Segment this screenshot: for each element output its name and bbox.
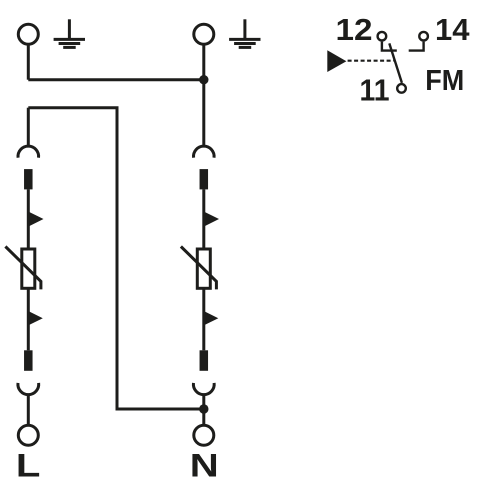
wire: L protective branch top xyxy=(27,108,30,147)
terminal circle top-right (PE side, N branch) xyxy=(194,24,214,44)
wire: bracket from L branch to N bottom junction xyxy=(28,108,204,409)
node: bus/N junction dot xyxy=(199,75,208,84)
arrow indicator lower, L branch xyxy=(29,311,43,325)
svg-text:12: 12 xyxy=(336,12,373,47)
wire: L varistor to lower fuse xyxy=(27,288,30,350)
FM moving contact arm xyxy=(389,43,402,83)
wire: N arc to junction xyxy=(202,394,205,409)
plug-in arc top, N branch xyxy=(194,146,215,158)
plug-in arc top, L branch xyxy=(18,146,39,158)
wire: left top circle down to bus xyxy=(27,46,30,80)
wire: N top circle down to arc xyxy=(202,46,205,148)
wire: L fuse to varistor xyxy=(27,189,30,249)
varistor N: rectangle xyxy=(197,249,210,288)
FM actuator arrow xyxy=(327,50,346,72)
arrow indicator upper, L branch xyxy=(29,212,44,226)
FM contact circle 12 xyxy=(378,32,387,41)
svg-text:L: L xyxy=(16,448,41,484)
FM actuator dashed link xyxy=(348,60,394,62)
plug-in arc bottom, N branch xyxy=(193,383,214,395)
node: N bottom junction dot xyxy=(199,404,208,413)
wire: L arc to terminal circle xyxy=(27,394,30,425)
FM terminal 12 stub xyxy=(382,42,397,51)
wire: top bus horizontal xyxy=(28,78,204,81)
fuse bar (disconnect) bottom, L branch xyxy=(24,350,33,371)
fuse bar (disconnect) top, L branch xyxy=(24,169,33,189)
varistor N: diagonal with foot xyxy=(181,247,217,290)
varistor L: rectangle xyxy=(22,249,35,288)
ground symbol left xyxy=(54,19,85,47)
varistor L: diagonal with foot xyxy=(5,247,41,290)
FM terminal 14 stub xyxy=(409,42,424,51)
wire: N fuse to varistor xyxy=(202,189,205,249)
wire: N varistor to lower fuse xyxy=(202,288,205,350)
plug-in arc bottom, L branch xyxy=(18,383,39,395)
fuse bar (disconnect) bottom, N branch xyxy=(200,350,209,371)
ground symbol right xyxy=(229,19,260,47)
arrow indicator lower, N branch xyxy=(205,311,219,325)
wire: N junction to terminal circle xyxy=(202,409,205,425)
FM contact circle 14 xyxy=(419,32,428,41)
arrow indicator upper, N branch xyxy=(205,212,220,226)
terminal circle bottom L xyxy=(18,425,38,445)
FM contact circle 11 (common) xyxy=(397,84,406,93)
terminal circle top-left (PE side, L branch) xyxy=(18,24,38,44)
terminal circle bottom N xyxy=(194,425,214,445)
svg-text:N: N xyxy=(190,448,219,484)
svg-text:11: 11 xyxy=(360,73,390,108)
svg-text:FM: FM xyxy=(425,65,464,97)
fuse bar (disconnect) top, N branch xyxy=(200,169,209,189)
svg-text:14: 14 xyxy=(435,12,470,47)
